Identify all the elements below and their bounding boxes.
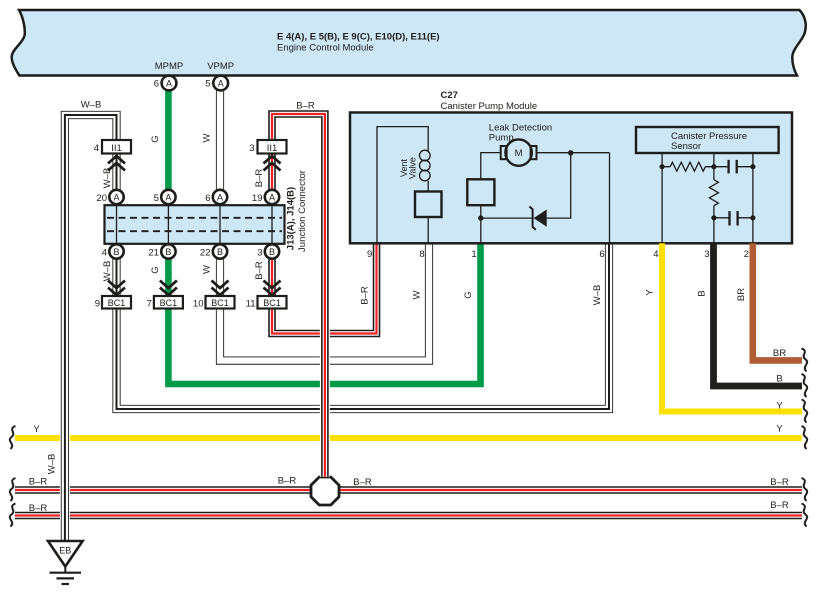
C27 Canister Pump Module box xyxy=(350,113,792,244)
svg-text:A: A xyxy=(217,192,223,202)
svg-text:A: A xyxy=(165,192,171,202)
motor M xyxy=(505,139,531,165)
svg-text:B: B xyxy=(697,290,708,296)
svg-text:3: 3 xyxy=(249,143,254,154)
connector box BC1 pin 9 xyxy=(102,296,131,309)
svg-text:C27: C27 xyxy=(441,90,458,101)
sensor leg pin 2 xyxy=(752,153,754,243)
svg-text:B–R: B–R xyxy=(254,169,265,188)
ground EB xyxy=(48,541,83,567)
sensor lower rail xyxy=(714,217,753,219)
break squiggle right BR xyxy=(802,348,808,371)
svg-text:Junction Connector: Junction Connector xyxy=(297,170,308,252)
svg-text:W–B: W–B xyxy=(592,285,603,306)
svg-text:E 4(A), E 5(B), E 9(C), E10(D): E 4(A), E 5(B), E 9(C), E10(D), E11(E) xyxy=(277,32,440,43)
connector circle 21B xyxy=(161,244,175,258)
sensor top rail with resistor xyxy=(662,166,753,168)
break squiggle left B-R 2 xyxy=(10,504,16,527)
svg-text:B–R: B–R xyxy=(296,100,315,111)
svg-text:2: 2 xyxy=(744,249,749,260)
splice junction octagon xyxy=(311,477,339,505)
svg-text:Canister Pump Module: Canister Pump Module xyxy=(441,101,538,112)
svg-text:B–R: B–R xyxy=(360,286,371,305)
node junction dot xyxy=(478,215,483,220)
wire B-R redraw over yellow xyxy=(324,425,326,477)
svg-text:W–B: W–B xyxy=(102,168,113,189)
connector circle 3B xyxy=(265,244,279,258)
wire W-B: junction connector II1-4 through J13 to C27 pin 6 xyxy=(117,154,610,410)
wire through bar col 1 xyxy=(116,197,118,252)
svg-text:A: A xyxy=(166,78,172,88)
ECM band E4/E5/E9/E10/E11 Engine Control Module xyxy=(12,10,806,76)
svg-text:B: B xyxy=(165,247,171,257)
svg-text:8: 8 xyxy=(419,249,424,260)
connector box BC1 pin 7 xyxy=(154,296,183,309)
wire B-R bottom bus 2 xyxy=(15,515,802,517)
chevron arrows down col3 xyxy=(212,281,229,296)
wire G: ECM MPMP pin 6A to C27 pin 1 xyxy=(168,76,480,384)
wire through bar col 2 xyxy=(167,197,169,252)
connector circle 5A VPMP xyxy=(213,76,228,91)
svg-text:19: 19 xyxy=(252,193,263,204)
wire B: C27 pin 3 to right edge xyxy=(714,243,803,386)
svg-text:A: A xyxy=(269,192,275,202)
svg-text:4: 4 xyxy=(102,247,107,258)
svg-text:6: 6 xyxy=(205,193,210,204)
svg-text:W–B: W–B xyxy=(102,261,113,282)
wire B-R bottom bus 1 xyxy=(15,489,802,491)
svg-text:BC1: BC1 xyxy=(160,298,178,308)
break squiggle right Y2 xyxy=(802,426,808,449)
wire W: ECM VPMP pin 5A to C27 pin 8 xyxy=(220,76,429,361)
svg-text:6: 6 xyxy=(154,79,159,90)
wire W-B: II1-4 loop to ground EB xyxy=(65,115,117,541)
svg-text:MPMP: MPMP xyxy=(155,61,184,72)
svg-text:3: 3 xyxy=(257,247,262,258)
svg-text:B–R: B–R xyxy=(278,476,297,487)
svg-text:B: B xyxy=(776,374,782,385)
svg-text:Y: Y xyxy=(776,400,783,411)
junction connector J13(A)/J14(B) bar xyxy=(105,205,285,244)
svg-text:B–R: B–R xyxy=(29,503,48,514)
sensor leg pin 3 xyxy=(713,153,715,243)
svg-text:G: G xyxy=(150,135,161,142)
svg-text:6: 6 xyxy=(599,249,604,260)
wire motor right brush to pin 6 xyxy=(537,153,610,243)
resistor horizontal xyxy=(670,162,705,171)
motor brush left xyxy=(501,146,507,159)
svg-text:Engine Control Module: Engine Control Module xyxy=(277,43,374,54)
svg-text:5: 5 xyxy=(154,193,159,204)
svg-text:7: 7 xyxy=(147,298,152,309)
svg-text:B–R: B–R xyxy=(29,476,48,487)
connector circle 19A xyxy=(265,190,279,204)
svg-text:J13(A), J14(B): J13(A), J14(B) xyxy=(286,187,297,250)
break squiggle right B xyxy=(802,374,808,397)
svg-text:BR: BR xyxy=(736,288,747,301)
svg-text:W: W xyxy=(202,133,213,142)
pump driver box xyxy=(467,179,494,205)
capacitor C-top plates xyxy=(729,160,737,174)
break squiggle right B-R 2 xyxy=(802,504,808,527)
svg-text:VPMP: VPMP xyxy=(207,61,234,72)
zener diode cathode bar xyxy=(529,207,535,230)
connector box BC1 pin 11 xyxy=(258,296,287,309)
wire Y: C27 pin 4 to right edge xyxy=(662,243,802,411)
break squiggle left Y xyxy=(10,426,16,449)
wire diode to right branch xyxy=(547,153,571,218)
svg-text:M: M xyxy=(515,148,523,159)
svg-text:4: 4 xyxy=(653,249,658,260)
svg-text:Y: Y xyxy=(776,423,783,434)
connector circle 6A MPMP xyxy=(162,76,177,91)
svg-text:5: 5 xyxy=(205,79,210,90)
resistor vertical xyxy=(709,180,718,206)
svg-text:B–R: B–R xyxy=(254,261,265,280)
chevron arrows up col4 xyxy=(264,156,281,171)
svg-text:9: 9 xyxy=(367,249,372,260)
svg-text:BC1: BC1 xyxy=(263,298,281,308)
connector circle 6A xyxy=(213,190,227,204)
svg-text:EB: EB xyxy=(59,546,71,556)
wire BR: C27 pin 2 to right edge xyxy=(753,243,802,360)
svg-text:Y: Y xyxy=(33,424,40,435)
sensor leg pin 4 xyxy=(661,153,663,243)
svg-text:11: 11 xyxy=(246,298,256,309)
svg-text:B: B xyxy=(113,247,119,257)
svg-text:II1: II1 xyxy=(111,143,122,154)
connector circle 22B xyxy=(213,244,227,258)
connector circle 5A xyxy=(161,190,175,204)
svg-text:B: B xyxy=(217,247,223,257)
connector box II1 pin 4 xyxy=(102,140,131,154)
chevron arrows down col4 xyxy=(264,281,281,296)
wire B-R: J13 B3 through BC1-11 to C27 pin 9 xyxy=(272,154,377,334)
svg-text:9: 9 xyxy=(95,298,100,309)
svg-text:20: 20 xyxy=(96,193,107,204)
chevron arrows up col1 xyxy=(108,156,125,171)
svg-text:BC1: BC1 xyxy=(108,298,126,308)
svg-text:G: G xyxy=(463,291,474,298)
svg-text:1: 1 xyxy=(471,249,476,260)
wire through bar col 4 xyxy=(271,197,273,252)
chevron arrows down col2 xyxy=(160,281,177,296)
svg-text:II1: II1 xyxy=(267,143,278,154)
zener diode triangle xyxy=(534,210,547,227)
svg-text:G: G xyxy=(150,266,161,273)
svg-text:B–R: B–R xyxy=(770,500,789,511)
wire to zener diode xyxy=(481,217,533,219)
svg-text:W: W xyxy=(412,290,423,299)
svg-text:Valve: Valve xyxy=(408,157,418,179)
vent valve coil xyxy=(420,150,431,161)
connector circle 4B xyxy=(109,244,123,258)
wire motor to pump driver box xyxy=(481,153,501,180)
svg-text:W–B: W–B xyxy=(47,454,58,475)
capacitor C-bottom plates xyxy=(730,211,738,225)
connector box II1 pin 3 xyxy=(258,140,287,154)
vent valve wiring pin 9 xyxy=(377,127,428,243)
svg-text:B: B xyxy=(269,247,275,257)
motor brush right xyxy=(531,146,537,159)
canister pressure sensor box xyxy=(636,127,779,153)
wire Y full width splice line xyxy=(15,435,802,441)
wire B-R: II1-3 loop down to splice junction xyxy=(272,114,325,477)
connector box BC1 pin 10 xyxy=(206,296,235,309)
svg-text:B–R: B–R xyxy=(353,477,372,488)
svg-text:4: 4 xyxy=(94,143,99,154)
svg-text:21: 21 xyxy=(148,247,159,258)
chevron arrows down col1 xyxy=(108,281,125,296)
svg-text:Y: Y xyxy=(645,289,656,296)
svg-text:B–R: B–R xyxy=(770,477,789,488)
break squiggle right B-R 1 xyxy=(802,478,808,501)
break squiggle right Y1 xyxy=(802,400,808,423)
svg-text:W: W xyxy=(202,265,213,274)
svg-text:10: 10 xyxy=(193,298,204,309)
svg-text:BC1: BC1 xyxy=(211,298,229,308)
svg-text:W–B: W–B xyxy=(81,100,102,111)
svg-text:3: 3 xyxy=(704,249,709,260)
svg-text:BR: BR xyxy=(773,348,786,359)
wire W-B redraw over buses xyxy=(64,420,66,541)
svg-text:A: A xyxy=(218,78,224,88)
svg-text:A: A xyxy=(113,192,119,202)
node junction dot xyxy=(568,150,573,155)
break squiggle left B-R 1 xyxy=(10,478,16,501)
node dots sensor xyxy=(660,164,665,169)
wire through bar col 3 xyxy=(219,197,221,252)
wire box to pin 1 xyxy=(480,205,482,243)
svg-text:Sensor: Sensor xyxy=(671,141,701,152)
svg-text:22: 22 xyxy=(200,247,211,258)
connector circle 20A xyxy=(109,190,123,204)
vent valve box xyxy=(415,192,442,218)
